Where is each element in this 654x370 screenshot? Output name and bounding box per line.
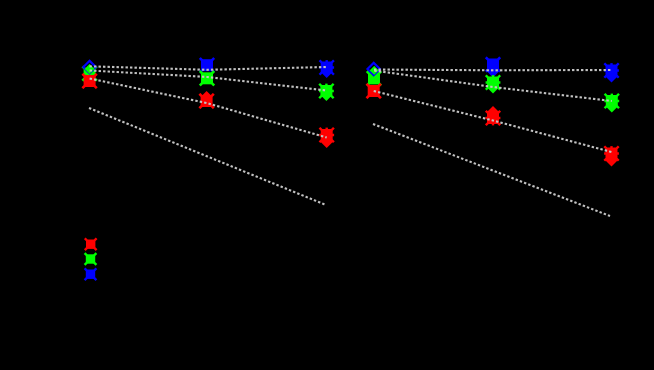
col1 cluster bbox=[82, 66, 96, 80]
col1 cluster bbox=[367, 71, 381, 85]
col3 bbox=[319, 60, 334, 75]
right panel series lines bbox=[374, 68, 612, 71]
col3 bbox=[604, 63, 619, 78]
left panel series lines bbox=[90, 66, 327, 70]
col2 bbox=[200, 58, 214, 72]
col2 bbox=[486, 57, 500, 71]
